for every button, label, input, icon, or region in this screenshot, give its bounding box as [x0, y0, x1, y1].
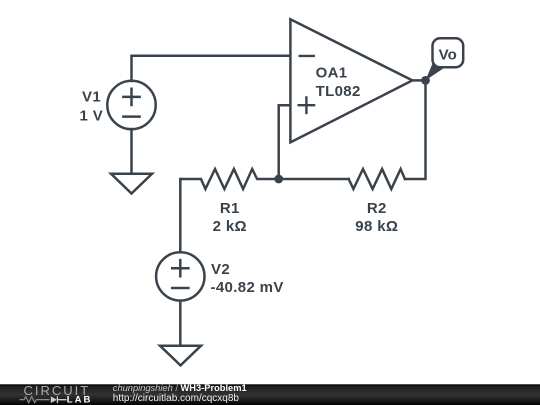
svg-text:1 V: 1 V [80, 107, 104, 124]
wire output node down to R2 right [405, 80, 426, 179]
Vo flag box [433, 38, 464, 67]
svg-text:OA1: OA1 [316, 65, 348, 82]
svg-text:R1: R1 [220, 200, 240, 217]
node output dot [421, 76, 430, 85]
logo resistor zigzag [20, 397, 50, 403]
svg-text:TL082: TL082 [316, 83, 361, 100]
wire V1 bottom to ground [130, 129, 133, 174]
wire V1 top to op-amp minus input [132, 56, 291, 81]
svg-text:chunpingshieh / WH3-Problem1: chunpingshieh / WH3-Problem1 [113, 383, 247, 393]
wire R1 left down to V2 top [179, 179, 182, 252]
op-amp plus input symbol [298, 96, 316, 114]
voltage source V1 [107, 81, 155, 129]
wire junction to R2 left [279, 178, 349, 181]
svg-text:-40.82 mV: -40.82 mV [211, 279, 284, 296]
logo diode [51, 396, 57, 403]
svg-text:V1: V1 [82, 89, 101, 106]
svg-text:R2: R2 [367, 200, 387, 217]
svg-text:98 kΩ: 98 kΩ [355, 218, 398, 235]
svg-text:http://circuitlab.com/cqcxq8b: http://circuitlab.com/cqcxq8b [113, 393, 240, 404]
op-amp OA1 triangle [290, 19, 412, 142]
junction node dot R1/R2 [274, 175, 283, 184]
wire junction up to op-amp plus input [279, 105, 291, 179]
ground below V2 [160, 346, 201, 366]
resistor R2 [349, 169, 405, 189]
wire V2 bottom to ground [179, 301, 182, 346]
ground below V1 [111, 174, 152, 194]
op-amp minus input symbol [299, 55, 315, 57]
svg-text:Vo: Vo [439, 46, 457, 63]
wire op-amp output to node [412, 79, 425, 82]
Vo flag pointer [426, 64, 445, 81]
voltage source V2 [156, 252, 204, 300]
svg-text:V2: V2 [211, 261, 230, 278]
svg-text:2 kΩ: 2 kΩ [213, 218, 247, 235]
resistor R1 [181, 169, 279, 189]
svg-text:LAB: LAB [67, 395, 93, 405]
